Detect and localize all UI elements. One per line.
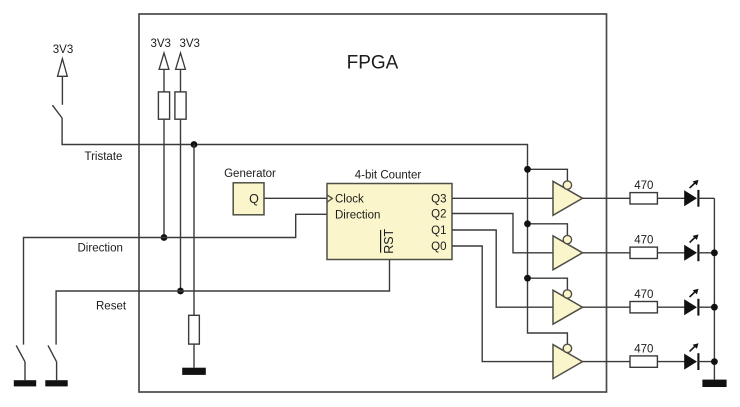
wire: switch S2 to ground — [24, 362, 26, 380]
svg-text:RST: RST — [382, 228, 396, 253]
wire: pulldown resistor to ground — [193, 344, 195, 368]
tristate buffer U6 — [553, 344, 583, 378]
wire: buffer 3 output to resistor — [583, 306, 631, 308]
tristate buffer U5 — [553, 290, 583, 324]
wire: Q2 to buffer 2 — [452, 214, 553, 253]
svg-text:Generator: Generator — [224, 168, 276, 180]
wire: pull-up 1 to Direction line — [163, 119, 165, 238]
node: cathode rail junction row 2 — [711, 249, 718, 256]
wire: pull-up 2 to Reset line — [180, 119, 182, 291]
resistor R2 (pull-up Reset) — [175, 92, 186, 119]
wire: buffer 1 output to resistor — [583, 197, 631, 199]
wire: LED D1 to cathode rail — [698, 197, 714, 199]
resistor R4 470 — [630, 193, 657, 204]
resistor R1 (pull-up Direction) — [158, 92, 169, 119]
wire: resistor R6 to LED D3 — [658, 306, 685, 308]
svg-text:Q2: Q2 — [431, 209, 446, 221]
svg-text:Q0: Q0 — [431, 241, 446, 253]
clock edge marker — [327, 195, 332, 202]
svg-text:Reset: Reset — [96, 301, 127, 313]
svg-text:FPGA: FPGA — [347, 53, 399, 74]
node: rail junction buffer 1 — [524, 166, 531, 173]
switch S2 (Direction) blade — [16, 345, 25, 361]
node: cathode rail junction row 4 — [711, 358, 718, 365]
wire: tristate rail to buffer 2 enable — [528, 224, 568, 236]
LED D2 — [684, 234, 698, 261]
power symbol 3V3 (left arrow) — [58, 59, 68, 105]
LED D3 — [684, 289, 698, 316]
svg-text:Direction: Direction — [78, 243, 123, 255]
wire: generator Q to counter Clock — [264, 197, 327, 199]
resistor R3 (pull-down) — [189, 315, 200, 344]
ground (switch S2) — [14, 380, 36, 386]
wire: Q0 to buffer 4 — [452, 246, 553, 362]
wire: buffer 4 output to resistor — [583, 361, 631, 363]
svg-text:470: 470 — [634, 180, 653, 192]
wire: resistor R4 to LED D1 — [658, 197, 685, 199]
resistor R7 470 — [630, 356, 657, 367]
wire: resistor R7 to LED D4 — [658, 361, 685, 363]
node: rail junction buffer 2 — [524, 220, 531, 227]
svg-text:470: 470 — [634, 343, 653, 355]
wire: switch S3 to ground — [56, 362, 58, 380]
LED D4 — [684, 343, 698, 370]
wire: cathode rail — [713, 198, 715, 379]
wire: Tristate net inside FPGA to rail — [139, 145, 567, 345]
ground (inside FPGA) — [182, 368, 206, 375]
wire: Q3 to buffer 1 — [452, 197, 553, 199]
wire: Direction net — [24, 214, 328, 344]
pin label RST (active low, rotated) — [381, 228, 396, 253]
tristate buffer U3 — [553, 181, 583, 215]
svg-text:4-bit Counter: 4-bit Counter — [355, 170, 422, 182]
resistor R5 470 — [630, 247, 657, 258]
svg-text:3V3: 3V3 — [179, 38, 199, 50]
node: Tristate / pulldown junction — [191, 141, 198, 148]
svg-text:Q: Q — [249, 192, 259, 206]
svg-text:Direction: Direction — [335, 210, 380, 222]
power symbol 3V3 (pull-up 2 arrow) — [176, 53, 186, 92]
ground (switch S3) — [45, 380, 67, 386]
svg-text:470: 470 — [634, 289, 653, 301]
svg-text:Q3: Q3 — [431, 194, 446, 206]
wire: LED D2 to cathode rail — [698, 252, 714, 254]
generator block U1 — [233, 183, 264, 215]
wire: switch S1 to Tristate node — [62, 118, 139, 145]
wire: resistor R5 to LED D2 — [658, 252, 685, 254]
wire: Reset net — [56, 260, 389, 345]
wire: tristate node to pulldown resistor — [193, 145, 195, 316]
svg-text:3V3: 3V3 — [53, 44, 73, 56]
svg-text:Q1: Q1 — [431, 225, 446, 237]
wire: Q1 to buffer 3 — [452, 230, 553, 307]
wire: tristate rail to buffer 3 enable — [528, 278, 568, 290]
tristate buffer U4 — [553, 235, 583, 269]
svg-text:Tristate: Tristate — [85, 151, 123, 163]
svg-text:470: 470 — [634, 235, 653, 247]
wire: buffer 2 output to resistor — [583, 252, 631, 254]
wire: tristate rail to buffer 1 enable — [528, 169, 568, 181]
switch S1 (Tristate) blade — [52, 105, 62, 118]
node: pull-up 2 / Reset junction — [177, 288, 184, 295]
power symbol 3V3 (pull-up 1 arrow) — [159, 53, 169, 92]
svg-text:Clock: Clock — [335, 194, 364, 206]
node: cathode rail junction row 3 — [711, 304, 718, 311]
FPGA boundary — [139, 14, 607, 392]
resistor R6 470 — [630, 302, 657, 313]
switch S3 (Reset) blade — [48, 345, 57, 361]
wire: LED D4 to cathode rail — [698, 361, 714, 363]
wire: LED D3 to cathode rail — [698, 306, 714, 308]
node: pull-up 1 / Direction junction — [161, 234, 168, 241]
node: rail junction buffer 3 — [524, 275, 531, 282]
LED D1 — [684, 180, 698, 207]
ground (cathode rail) — [702, 380, 726, 387]
counter block U2 — [327, 184, 452, 260]
svg-text:3V3: 3V3 — [150, 38, 170, 50]
